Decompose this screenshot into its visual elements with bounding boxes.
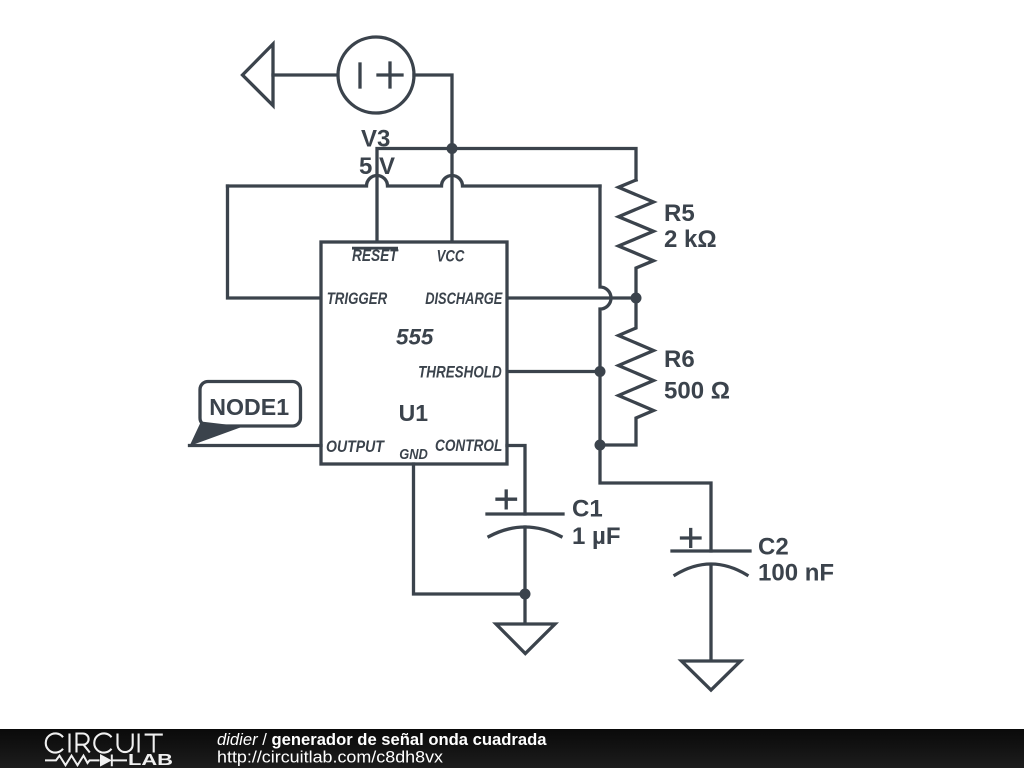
svg-text:2 kΩ: 2 kΩ bbox=[664, 226, 717, 253]
capacitor C1 plus bbox=[497, 491, 516, 508]
svg-text:GND: GND bbox=[399, 447, 428, 463]
svg-text:R6: R6 bbox=[664, 346, 695, 373]
capacitor C1 lead bbox=[523, 527, 526, 594]
resistor R6 bbox=[600, 298, 654, 445]
svg-text:U1: U1 bbox=[399, 400, 429, 426]
junction R5/R6/discharge bbox=[631, 293, 642, 304]
svg-text:DISCHARGE: DISCHARGE bbox=[425, 289, 503, 308]
svg-text:LAB: LAB bbox=[128, 752, 173, 768]
resistor R5 bbox=[619, 180, 654, 298]
wire output bbox=[190, 444, 322, 447]
svg-text:C2: C2 bbox=[758, 534, 789, 561]
svg-text:R5: R5 bbox=[664, 200, 695, 227]
wire flag to source bbox=[273, 73, 340, 76]
wire to ground C1 bbox=[523, 594, 526, 624]
wire source to corner bbox=[414, 75, 452, 149]
capacitor C1 top plate bbox=[487, 512, 563, 515]
svg-text:CONTROL: CONTROL bbox=[435, 436, 502, 455]
junction threshold bbox=[595, 366, 606, 377]
svg-text:1 µF: 1 µF bbox=[572, 523, 621, 550]
svg-text:500 Ω: 500 Ω bbox=[664, 378, 730, 405]
wire discharge with hop bbox=[507, 296, 636, 299]
net flag triangle (left pointer) bbox=[243, 44, 274, 106]
svg-text:V3: V3 bbox=[361, 126, 390, 153]
capacitor C2 plus bbox=[682, 530, 701, 547]
ground C1 bbox=[496, 624, 555, 654]
capacitor C2 bottom plate bbox=[675, 564, 747, 575]
svg-text:TRIGGER: TRIGGER bbox=[327, 289, 388, 308]
capacitor C2 lead bbox=[709, 565, 712, 661]
svg-text:THRESHOLD: THRESHOLD bbox=[418, 363, 502, 382]
ground C2 bbox=[682, 661, 741, 690]
wire bus down to TRIGGER bbox=[228, 186, 322, 298]
wire bus with hops to x600 bbox=[228, 176, 601, 186]
V3 minus bar bbox=[358, 64, 361, 87]
logo diode triangle bbox=[100, 754, 112, 767]
node flag NODE1 tail bbox=[190, 422, 244, 447]
svg-text:http://circuitlab.com/c8dh8vx: http://circuitlab.com/c8dh8vx bbox=[217, 748, 444, 767]
wire vertical net x600 bbox=[600, 186, 711, 551]
svg-text:555: 555 bbox=[396, 325, 434, 350]
logo CIRCUIT drawn letters bbox=[46, 733, 163, 752]
wire control bbox=[507, 446, 525, 515]
svg-text:NODE1: NODE1 bbox=[209, 394, 289, 420]
capacitor C2 top plate bbox=[672, 549, 750, 552]
svg-text:didier / generador de señal on: didier / generador de señal onda cuadrad… bbox=[217, 731, 547, 749]
wire junction to VCC pin bbox=[450, 149, 453, 243]
junction R6 bottom bbox=[595, 440, 606, 451]
junction C1/gnd bbox=[520, 589, 531, 600]
voltage source V3 circle bbox=[338, 37, 414, 113]
wire junction to R5 top bbox=[452, 149, 636, 181]
svg-text:C1: C1 bbox=[572, 496, 603, 523]
logo resistor bbox=[45, 755, 127, 767]
svg-text:VCC: VCC bbox=[437, 247, 465, 266]
svg-text:OUTPUT: OUTPUT bbox=[326, 437, 385, 456]
junction V3/VCC bbox=[447, 143, 458, 154]
wire junction to RESET pin bbox=[377, 149, 452, 243]
pin RESET overline bbox=[352, 247, 398, 250]
op-amp box U1 555 bbox=[321, 242, 507, 464]
wire gnd pin bbox=[414, 464, 526, 594]
svg-text:100 nF: 100 nF bbox=[758, 559, 834, 586]
V3 plus sign bbox=[378, 63, 402, 87]
svg-text:5 V: 5 V bbox=[359, 153, 395, 180]
wire threshold bbox=[507, 370, 600, 373]
node flag NODE1 bubble bbox=[200, 382, 301, 427]
capacitor C1 bottom plate bbox=[489, 527, 561, 537]
